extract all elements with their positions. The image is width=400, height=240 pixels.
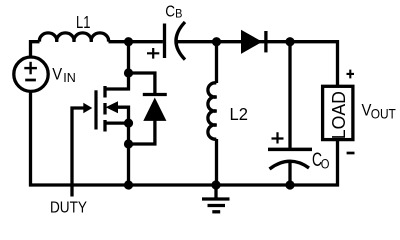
svg-text:L1: L1 — [76, 13, 90, 33]
svg-text:V: V — [52, 66, 62, 84]
svg-text:LOAD: LOAD — [329, 91, 349, 139]
svg-text:O: O — [321, 156, 330, 171]
svg-text:L2: L2 — [230, 103, 248, 124]
svg-text:OUT: OUT — [371, 106, 396, 122]
svg-text:B: B — [175, 8, 182, 20]
svg-text:IN: IN — [63, 71, 76, 85]
svg-text:DUTY: DUTY — [50, 200, 87, 217]
svg-text:C: C — [165, 3, 175, 20]
